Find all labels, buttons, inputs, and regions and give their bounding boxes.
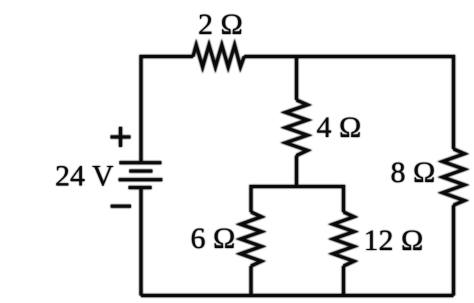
soft halo pass bbox=[111, 45, 465, 296]
crisp core pass bbox=[111, 45, 465, 296]
